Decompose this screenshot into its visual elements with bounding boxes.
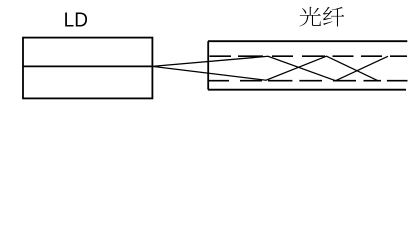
fiber core upper boundary (dashed): [210, 55, 408, 57]
svg-text:LD: LD: [64, 9, 88, 32]
LD active layer line: [23, 65, 152, 67]
fiber top edge: [208, 40, 407, 42]
label 光纤 (optical fiber): [300, 7, 345, 27]
light ray B: [152, 56, 378, 80]
fiber left end face: [207, 41, 209, 89]
light ray A: [152, 56, 388, 80]
fiber core lower boundary (dashed): [208, 80, 408, 82]
laser diode LD box: [23, 38, 152, 99]
fiber bottom edge: [208, 89, 406, 91]
